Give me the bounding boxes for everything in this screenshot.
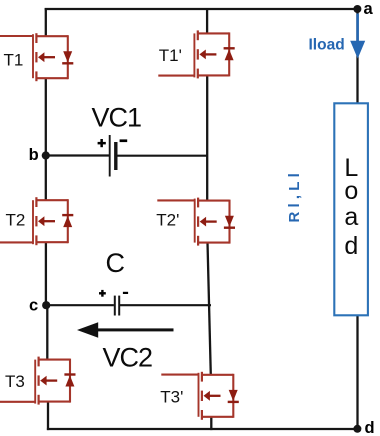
svg-text:T2: T2 (6, 211, 26, 230)
load box (Load) (334, 103, 368, 315)
wire T1 source to node b (45, 78, 47, 156)
wire load bottom to node d (356, 315, 358, 429)
svg-text:Iload: Iload (309, 37, 345, 54)
svg-text:d: d (344, 232, 358, 260)
svg-text:d: d (365, 419, 375, 436)
svg-text:T3': T3' (160, 387, 183, 406)
svg-text:T3: T3 (5, 372, 25, 391)
arrow Iload (load current) (350, 14, 365, 59)
transistor T2p (157, 198, 235, 246)
wire node a to load top (356, 9, 358, 104)
transistor T1 (0, 33, 73, 81)
svg-text:VC1: VC1 (92, 103, 142, 133)
transistor T1p (158, 30, 234, 78)
svg-text:Rl,Ll: Rl,Ll (286, 169, 303, 223)
svg-text:o: o (344, 177, 358, 205)
node d (353, 425, 361, 433)
svg-text:a: a (364, 0, 374, 18)
svg-text:VC2: VC2 (103, 343, 153, 373)
transistor T3p (161, 372, 239, 420)
transistor T2 (0, 197, 73, 245)
svg-text:a: a (344, 203, 358, 231)
wire top rail a-node to left rail (45, 8, 358, 10)
svg-text:T1': T1' (159, 46, 182, 65)
wire node b to capacitor VC1 left plate (46, 154, 109, 156)
wire T3 source to bottom rail (47, 402, 49, 431)
wire node c to capacitor C left plate (46, 304, 114, 306)
wire T1p source to T2p drain (206, 75, 208, 201)
node c (42, 301, 50, 309)
wire left rail top to T1 drain (45, 8, 47, 36)
svg-text:c: c (29, 296, 38, 314)
wire node c to T3 drain (46, 305, 48, 360)
node b (42, 151, 50, 159)
svg-text:C: C (106, 248, 126, 278)
capacitor C (99, 290, 128, 316)
transistor T3 (0, 357, 76, 405)
wire T2 source to node c (45, 242, 47, 305)
wire capacitor VC1 right plate to mid rail (117, 155, 207, 157)
label Load (344, 154, 358, 260)
wire mid rail top to T1p drain (206, 9, 208, 34)
svg-text:T1: T1 (4, 50, 24, 69)
wire T2p source to T3p drain (208, 242, 211, 375)
svg-text:b: b (29, 146, 39, 164)
capacitor C1 (flying cap, voltage VC1) (98, 135, 128, 177)
wire T3p source to bottom rail (210, 417, 212, 431)
wire bottom rail to node d (47, 428, 358, 430)
wire node b to T2 drain (45, 156, 47, 201)
node a (353, 5, 361, 13)
arrow VC2 (cap voltage direction) (77, 322, 174, 338)
wire capacitor C right plate to mid rail (120, 304, 211, 306)
svg-text:T2': T2' (156, 211, 179, 230)
